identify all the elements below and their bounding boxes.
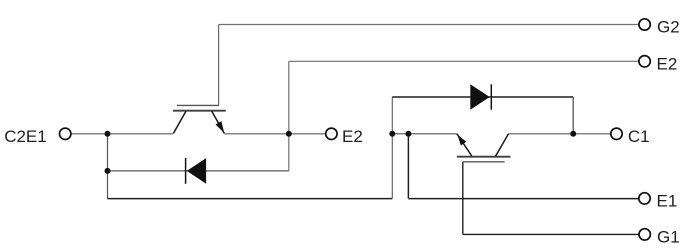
svg-text:C1: C1 bbox=[628, 127, 650, 146]
Q2 emitter arrow bbox=[216, 121, 225, 133]
transistor Q1 (IGBT, gate G1) bbox=[457, 134, 511, 162]
wire E1 horizontal bbox=[408, 198, 638, 200]
node junction D2 cathode bbox=[105, 168, 111, 174]
node junction D1 cathode rail bbox=[570, 131, 576, 137]
Q2 collector lead bbox=[173, 111, 186, 133]
wire E2 vertical bbox=[288, 61, 290, 171]
svg-text:G1: G1 bbox=[657, 228, 680, 247]
terminal G2 bbox=[639, 19, 650, 30]
wire G2 horizontal bbox=[219, 24, 639, 26]
D1 triangle bbox=[470, 84, 489, 109]
wire D1 right vertical bbox=[572, 97, 574, 134]
wire Q2 emitter to E2 bbox=[224, 133, 325, 135]
diode D2 (anti-parallel, points left) bbox=[186, 158, 207, 184]
wire G2 gate vertical bbox=[218, 25, 220, 106]
node junction C2E1 rail bbox=[105, 131, 111, 137]
wire D1 left vertical bbox=[391, 97, 393, 199]
wire G1 horizontal bbox=[463, 233, 639, 235]
svg-text:E1: E1 bbox=[657, 191, 678, 210]
terminal E2 aux bbox=[639, 56, 650, 67]
D1 cathode bar bbox=[490, 84, 492, 109]
wire Q1 collector to C1 bbox=[509, 133, 611, 135]
Q2 gate plate bbox=[177, 104, 219, 106]
transistor Q2 (IGBT, gate G2) bbox=[173, 105, 226, 133]
wire diode D2 row bbox=[108, 170, 289, 172]
Q2 body bar bbox=[173, 110, 226, 112]
wire G1 gate vertical bbox=[462, 162, 464, 235]
diode D1 (anti-parallel, points right) bbox=[470, 84, 491, 109]
Q1 body bar bbox=[457, 156, 511, 158]
Q1 gate plate bbox=[463, 161, 505, 163]
D2 triangle bbox=[187, 158, 206, 184]
wire C2E1 junction vertical bbox=[107, 134, 109, 199]
svg-text:E2: E2 bbox=[657, 55, 678, 74]
terminal C2E1 bbox=[59, 128, 70, 139]
Q2 emitter lead bbox=[212, 111, 225, 133]
node junction E1 rail bbox=[405, 131, 411, 137]
svg-text:E2: E2 bbox=[342, 127, 363, 146]
Q1 emitter lead bbox=[457, 134, 472, 156]
node junction D1 anode rail bbox=[389, 131, 395, 137]
wire C2E1 to Q2 collector bbox=[72, 133, 174, 135]
wire D1 top horizontal bbox=[392, 96, 573, 98]
terminal G1 bbox=[639, 229, 650, 240]
terminal E2 main bbox=[326, 128, 337, 139]
wire E1 vertical bbox=[407, 134, 409, 199]
wire E2 aux horizontal bbox=[289, 60, 639, 62]
wire rail to Q1 emitter bbox=[392, 133, 457, 135]
wire bottom C2E1 horizontal bbox=[108, 198, 393, 200]
Q1 collector lead bbox=[496, 134, 509, 156]
node junction E2 rail bbox=[286, 131, 292, 137]
D2 cathode bar bbox=[185, 158, 187, 184]
terminal E1 bbox=[639, 193, 650, 204]
svg-text:G2: G2 bbox=[657, 18, 680, 37]
terminal C1 bbox=[611, 128, 622, 139]
svg-text:C2E1: C2E1 bbox=[4, 127, 47, 146]
Q1 emitter arrow bbox=[457, 135, 466, 146]
